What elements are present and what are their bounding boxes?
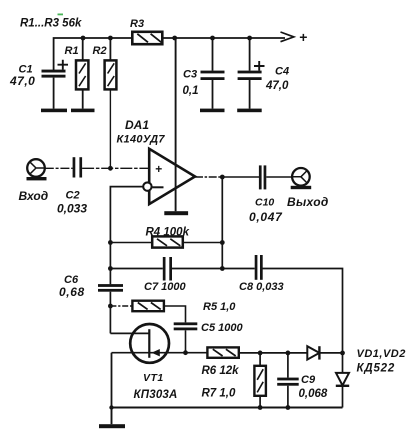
- svg-text:VT1: VT1: [143, 372, 164, 384]
- svg-text:47,0: 47,0: [9, 74, 35, 88]
- node junction R1 top: [81, 36, 86, 41]
- wire gate to ground: [111, 353, 113, 408]
- resistor R2: [105, 38, 117, 89]
- svg-text:C8 0,033: C8 0,033: [239, 281, 284, 293]
- resistor R7: [254, 353, 266, 408]
- op-amp DA1: [143, 149, 195, 204]
- capacitor C9: [277, 353, 299, 408]
- ground C1: [41, 109, 67, 113]
- node junction C5 bottom: [183, 350, 188, 355]
- node junction DA1 power: [172, 36, 177, 41]
- node junction gate rail: [109, 405, 113, 409]
- capacitor C3: [201, 38, 225, 109]
- svg-text:0,033: 0,033: [57, 202, 87, 216]
- diode VD2: [336, 353, 349, 408]
- node junction C9 bottom: [286, 405, 291, 410]
- ground DA1: [164, 211, 188, 215]
- svg-text:DA1: DA1: [125, 118, 149, 132]
- capacitor C1: [42, 60, 69, 109]
- node junction R7 top: [258, 351, 263, 356]
- wire input to C2: [45, 167, 73, 169]
- wire drain feed: [110, 332, 149, 334]
- transistor VT1: [130, 324, 169, 363]
- svg-text:R5 1,0: R5 1,0: [203, 301, 236, 313]
- wire R5 to C5: [164, 306, 186, 322]
- wire R2 to noninverting input: [109, 89, 111, 168]
- ground C4: [237, 109, 262, 113]
- node junction C8 tee: [220, 266, 225, 271]
- svg-text:VD1,VD2: VD1,VD2: [357, 348, 406, 360]
- svg-text:0,1: 0,1: [183, 85, 199, 97]
- svg-text:0,68: 0,68: [59, 285, 85, 299]
- svg-text:R3: R3: [130, 18, 144, 30]
- node junction C7 left: [108, 266, 113, 271]
- wire R4: [110, 242, 222, 244]
- wire source row right: [239, 352, 307, 354]
- svg-text:C4: C4: [275, 66, 289, 78]
- wire C7 C8 row: [110, 269, 342, 353]
- node junction R7 bottom: [258, 405, 263, 410]
- svg-text:C2: C2: [66, 190, 80, 202]
- wire DA1 output: [195, 176, 222, 178]
- svg-text:R1...R3 56k: R1...R3 56k: [20, 18, 82, 30]
- wire bottom rail: [112, 407, 343, 409]
- svg-text:К140УД7: К140УД7: [117, 134, 166, 146]
- node junction output: [220, 175, 225, 180]
- wire C2 to noninverting input: [82, 167, 149, 169]
- resistor R6: [207, 347, 238, 357]
- wire DA1 power: [175, 38, 177, 211]
- svg-text:0,047: 0,047: [249, 210, 283, 224]
- svg-text:R2: R2: [93, 45, 107, 57]
- node junction R4 right: [220, 240, 225, 245]
- wire top rail: [54, 38, 285, 71]
- connector input: [27, 159, 47, 180]
- connector output: [291, 168, 312, 189]
- diode VD1: [307, 346, 342, 359]
- resistor R1: [76, 38, 88, 109]
- ground main: [99, 408, 125, 429]
- svg-text:+: +: [155, 162, 162, 176]
- node junction C9 top: [286, 351, 291, 356]
- svg-text:C10: C10: [255, 197, 274, 209]
- svg-text:Выход: Выход: [287, 195, 329, 209]
- resistor R4: [152, 236, 183, 247]
- capacitor C5: [174, 322, 198, 352]
- ground C3: [200, 109, 225, 113]
- svg-text:47,0: 47,0: [265, 80, 289, 92]
- wire source row: [112, 352, 208, 354]
- capacitor C10: [259, 165, 292, 189]
- node junction R4 left: [108, 240, 113, 245]
- svg-text:+: +: [299, 29, 307, 45]
- node junction VD1 right: [340, 351, 345, 356]
- node junction R2 top: [108, 36, 113, 41]
- wire output node down: [221, 177, 223, 269]
- capacitor C8: [255, 255, 263, 280]
- node plus-rail arrow: [281, 32, 294, 42]
- wire inverting input feedback: [110, 187, 143, 285]
- svg-text:C5 1000: C5 1000: [201, 322, 243, 334]
- svg-text:C7 1000: C7 1000: [144, 281, 186, 293]
- resistor R5: [132, 301, 164, 312]
- capacitor C4: [238, 38, 265, 109]
- capacitor C2: [73, 157, 83, 177]
- resistor R3: [132, 32, 162, 44]
- capacitor C6: [98, 284, 123, 333]
- svg-text:R6 12k: R6 12k: [202, 365, 240, 377]
- svg-text:КП303А: КП303А: [134, 389, 178, 401]
- svg-text:R4 100k: R4 100k: [146, 227, 190, 239]
- svg-text:R1: R1: [65, 45, 79, 57]
- node junction noninverting input: [108, 166, 113, 171]
- svg-text:Вход: Вход: [19, 189, 49, 203]
- capacitor C7: [163, 257, 172, 281]
- svg-text:C3: C3: [183, 69, 197, 81]
- svg-text:R7 1,0: R7 1,0: [202, 388, 236, 400]
- wire R5: [110, 305, 132, 307]
- node junction C3 top: [210, 36, 215, 41]
- svg-text:КД522: КД522: [357, 363, 396, 375]
- svg-text:C9: C9: [301, 374, 316, 386]
- node junction C4 top: [247, 36, 252, 41]
- node junction R5 left: [108, 304, 113, 309]
- ground R1: [71, 109, 95, 113]
- green mark: [58, 14, 64, 16]
- svg-text:0,068: 0,068: [299, 388, 328, 400]
